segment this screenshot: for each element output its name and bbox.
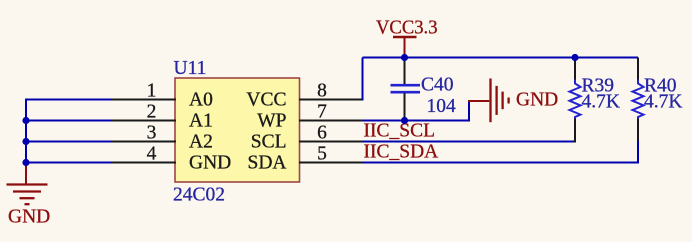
svg-text:C40: C40: [421, 75, 454, 96]
ground GND bottom-left symbol: [7, 163, 48, 205]
junction bus row4: [22, 159, 29, 166]
wire vertical up to GND symbol: [468, 101, 470, 122]
svg-text:IIC_SDA: IIC_SDA: [364, 142, 439, 163]
power VCC3.3 symbol: [393, 37, 417, 58]
svg-text:GND: GND: [516, 90, 558, 111]
junction bus row2: [22, 117, 29, 124]
pin 2 A1: [112, 102, 213, 132]
pin 7 WP: [257, 102, 362, 132]
svg-text:VCC: VCC: [246, 90, 286, 111]
wire pin3 to bus: [25, 141, 112, 143]
svg-text:VCC3.3: VCC3.3: [376, 18, 438, 39]
svg-text:IIC_SCL: IIC_SCL: [364, 121, 436, 142]
pin 3 A2: [112, 123, 213, 153]
svg-text:SCL: SCL: [251, 132, 287, 153]
resistor R39: [570, 58, 581, 143]
IC U11 body: [175, 78, 300, 182]
wire pin5 SDA: [363, 162, 639, 164]
junction rail R39: [571, 54, 578, 61]
svg-text:8: 8: [317, 81, 327, 102]
svg-text:3: 3: [147, 123, 157, 144]
pin 8 VCC: [246, 81, 362, 111]
pin 5 SDA: [247, 144, 362, 174]
svg-text:GND: GND: [8, 207, 50, 228]
wire pin6 SCL: [363, 141, 576, 143]
wire pin8 vertical to rail: [362, 58, 364, 101]
svg-text:U11: U11: [174, 58, 207, 79]
svg-text:7: 7: [317, 102, 327, 123]
svg-text:SDA: SDA: [247, 153, 286, 174]
svg-text:4.7K: 4.7K: [644, 92, 682, 113]
junction C40 bottom on WP wire: [401, 117, 408, 124]
wire pin4 to bus: [25, 162, 112, 164]
svg-text:A1: A1: [189, 111, 213, 132]
wire left bus vertical: [25, 99, 27, 164]
svg-text:A0: A0: [189, 90, 213, 111]
pin 6 SCL: [251, 123, 363, 153]
svg-text:5: 5: [317, 144, 327, 165]
svg-text:GND: GND: [189, 153, 231, 174]
wire VCC rail: [363, 57, 639, 59]
svg-text:4: 4: [147, 144, 157, 165]
svg-text:104: 104: [427, 96, 457, 117]
ground GND sideways power symbol: [468, 79, 509, 123]
svg-text:A2: A2: [189, 132, 213, 153]
pin 4 GND: [112, 144, 232, 174]
wire pin7 to GND branch: [363, 120, 470, 122]
pin 1 A0: [112, 81, 213, 111]
resistor R40: [633, 58, 644, 164]
capacitor C40: [391, 58, 421, 122]
svg-text:1: 1: [147, 81, 157, 102]
wire pin1 to bus: [25, 99, 112, 101]
junction rail C40: [401, 54, 408, 61]
svg-text:24C02: 24C02: [173, 185, 225, 206]
svg-text:6: 6: [317, 123, 327, 144]
svg-text:2: 2: [147, 102, 157, 123]
wire pin2 to bus: [25, 120, 112, 122]
svg-text:4.7K: 4.7K: [582, 92, 620, 113]
svg-text:WP: WP: [257, 111, 286, 132]
junction bus row3: [22, 138, 29, 145]
